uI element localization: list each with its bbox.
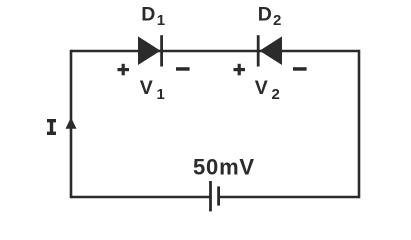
wire left — [70, 50, 73, 199]
label minus of V1 — [176, 67, 190, 71]
svg-text:D: D — [258, 3, 272, 25]
label minus of V2 — [293, 67, 307, 71]
label V1 — [140, 77, 165, 103]
label 50mV — [193, 154, 255, 179]
label + of V1 — [118, 64, 130, 76]
label D1 — [141, 3, 165, 29]
svg-text:D: D — [141, 3, 155, 25]
wire bottom-left segment — [71, 196, 210, 199]
svg-text:V: V — [255, 77, 268, 99]
svg-text:V: V — [140, 77, 153, 99]
svg-text:1: 1 — [157, 12, 165, 29]
current arrow I — [66, 117, 77, 128]
wire top — [71, 50, 359, 53]
svg-text:2: 2 — [272, 86, 280, 103]
battery cell negative plate — [217, 186, 220, 205]
svg-text:1: 1 — [157, 86, 165, 103]
label D2 — [258, 3, 282, 29]
label I — [47, 119, 56, 135]
label + of V2 — [234, 64, 246, 76]
svg-text:2: 2 — [273, 12, 281, 29]
diode D2 — [257, 35, 282, 66]
battery cell positive plate — [209, 181, 212, 211]
wire bottom-right segment — [219, 196, 359, 199]
diode D1 — [138, 35, 163, 66]
svg-text:50mV: 50mV — [193, 154, 255, 179]
wire right — [358, 50, 361, 199]
label V2 — [255, 77, 280, 103]
